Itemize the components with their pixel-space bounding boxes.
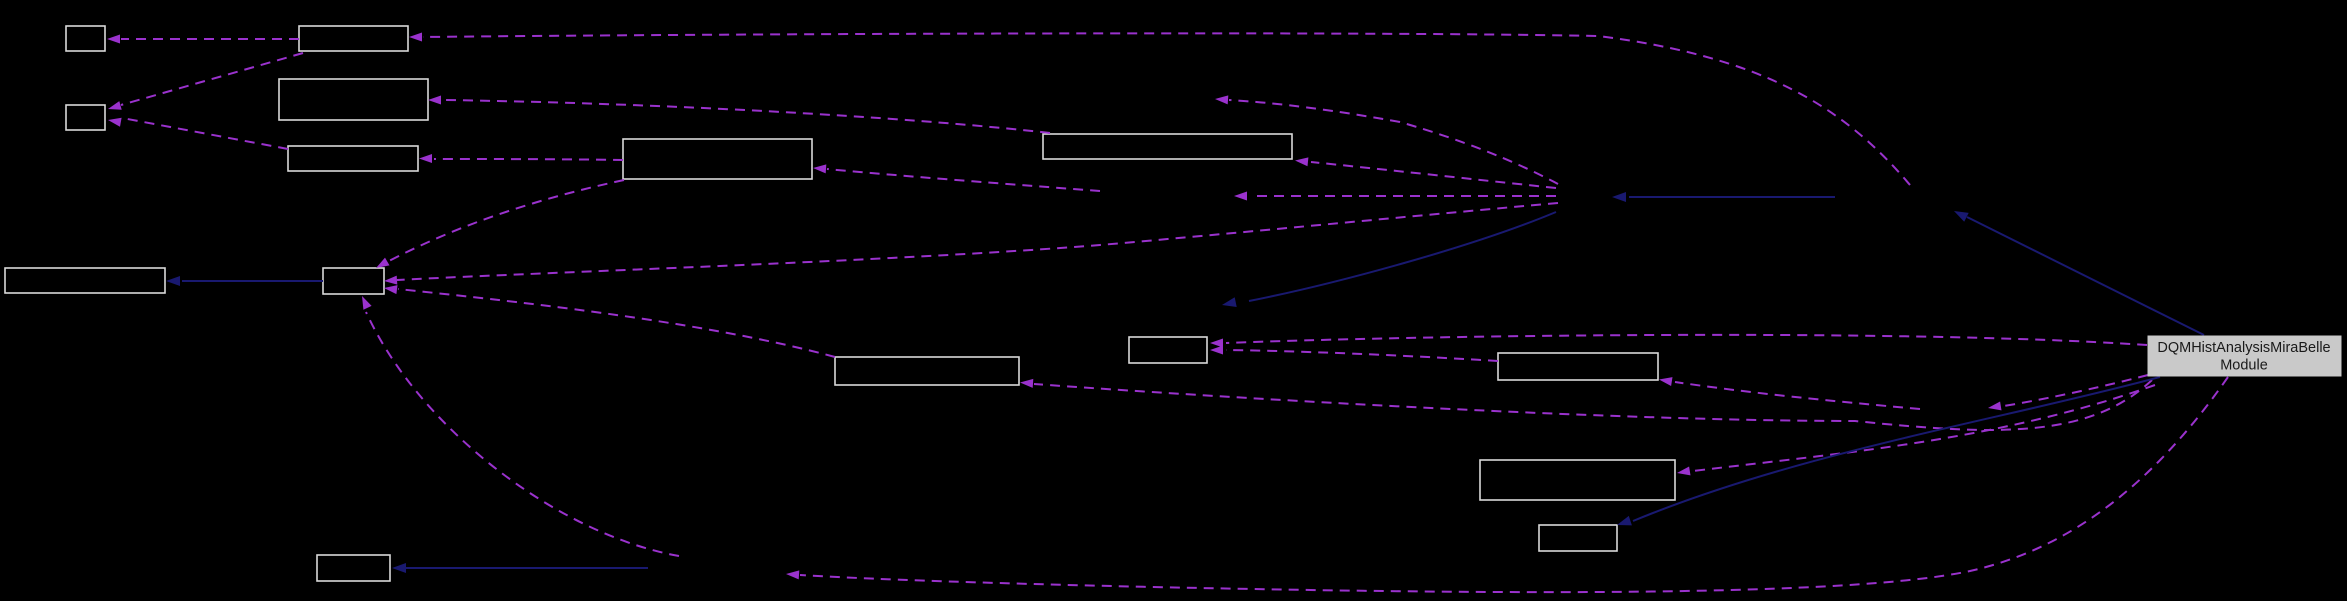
edge E19 G->B13	[1677, 385, 2155, 475]
node B5	[288, 146, 418, 171]
node B13	[1480, 460, 1675, 500]
node B3	[66, 105, 105, 130]
edge X6 inv5->B15	[392, 563, 648, 573]
edge E7 inv1->B7	[1295, 157, 1556, 188]
node B1	[66, 26, 105, 51]
edge X5 G->B14	[1617, 377, 2160, 525]
edge X4 G->inv3	[1954, 211, 2204, 335]
node B6	[623, 139, 812, 179]
edge E12 B10->B8	[384, 285, 835, 357]
edge X3 inv1->inv4b	[1222, 212, 1556, 307]
node B9	[5, 268, 165, 293]
edge E15 G->B11	[1210, 335, 2147, 348]
edge E3 B5->B3	[108, 118, 288, 149]
node B14	[1539, 525, 1617, 551]
edge E8 inv1->inv4a	[1234, 192, 1556, 201]
edge E4 B7->B4	[428, 96, 1050, 134]
node B11	[1129, 337, 1207, 363]
node B4	[279, 79, 428, 120]
edge E11 B6->B8	[376, 180, 624, 268]
edge E10 inv1->B8	[384, 203, 1558, 285]
node B15	[317, 555, 390, 581]
edge E16 B12->B11	[1210, 346, 1498, 362]
node B7	[1043, 134, 1292, 159]
edge X2 inv3->inv1	[1612, 192, 1835, 202]
svg-text:DQMHistAnalysisMiraBelle: DQMHistAnalysisMiraBelle	[2157, 340, 2330, 356]
edge E1 B2->B1	[107, 35, 299, 44]
edge E6 inv4a->B6	[813, 164, 1100, 191]
edge E13 inv5->B8	[362, 296, 679, 556]
edge E17 invX->B12	[1659, 377, 1920, 409]
node B2	[299, 26, 408, 51]
node B10	[835, 357, 1019, 385]
edge E21 G->inv5	[786, 377, 2228, 592]
svg-text:Module: Module	[2220, 358, 2268, 374]
edge E20 G->invX	[1988, 375, 2148, 410]
edge E14 inv3->B2	[409, 33, 1910, 186]
edge E18 G->B10	[1020, 379, 2152, 430]
node B12	[1498, 353, 1658, 380]
edge E5 B6->B5	[419, 154, 623, 163]
edge E9 inv1->inv6	[1215, 95, 1558, 184]
node DQMHistAnalysisMiraBelleModule	[2148, 336, 2341, 376]
edge X1 B8->B9	[166, 276, 323, 286]
node B8	[323, 268, 384, 294]
edge E2 B2->B3	[108, 53, 303, 110]
